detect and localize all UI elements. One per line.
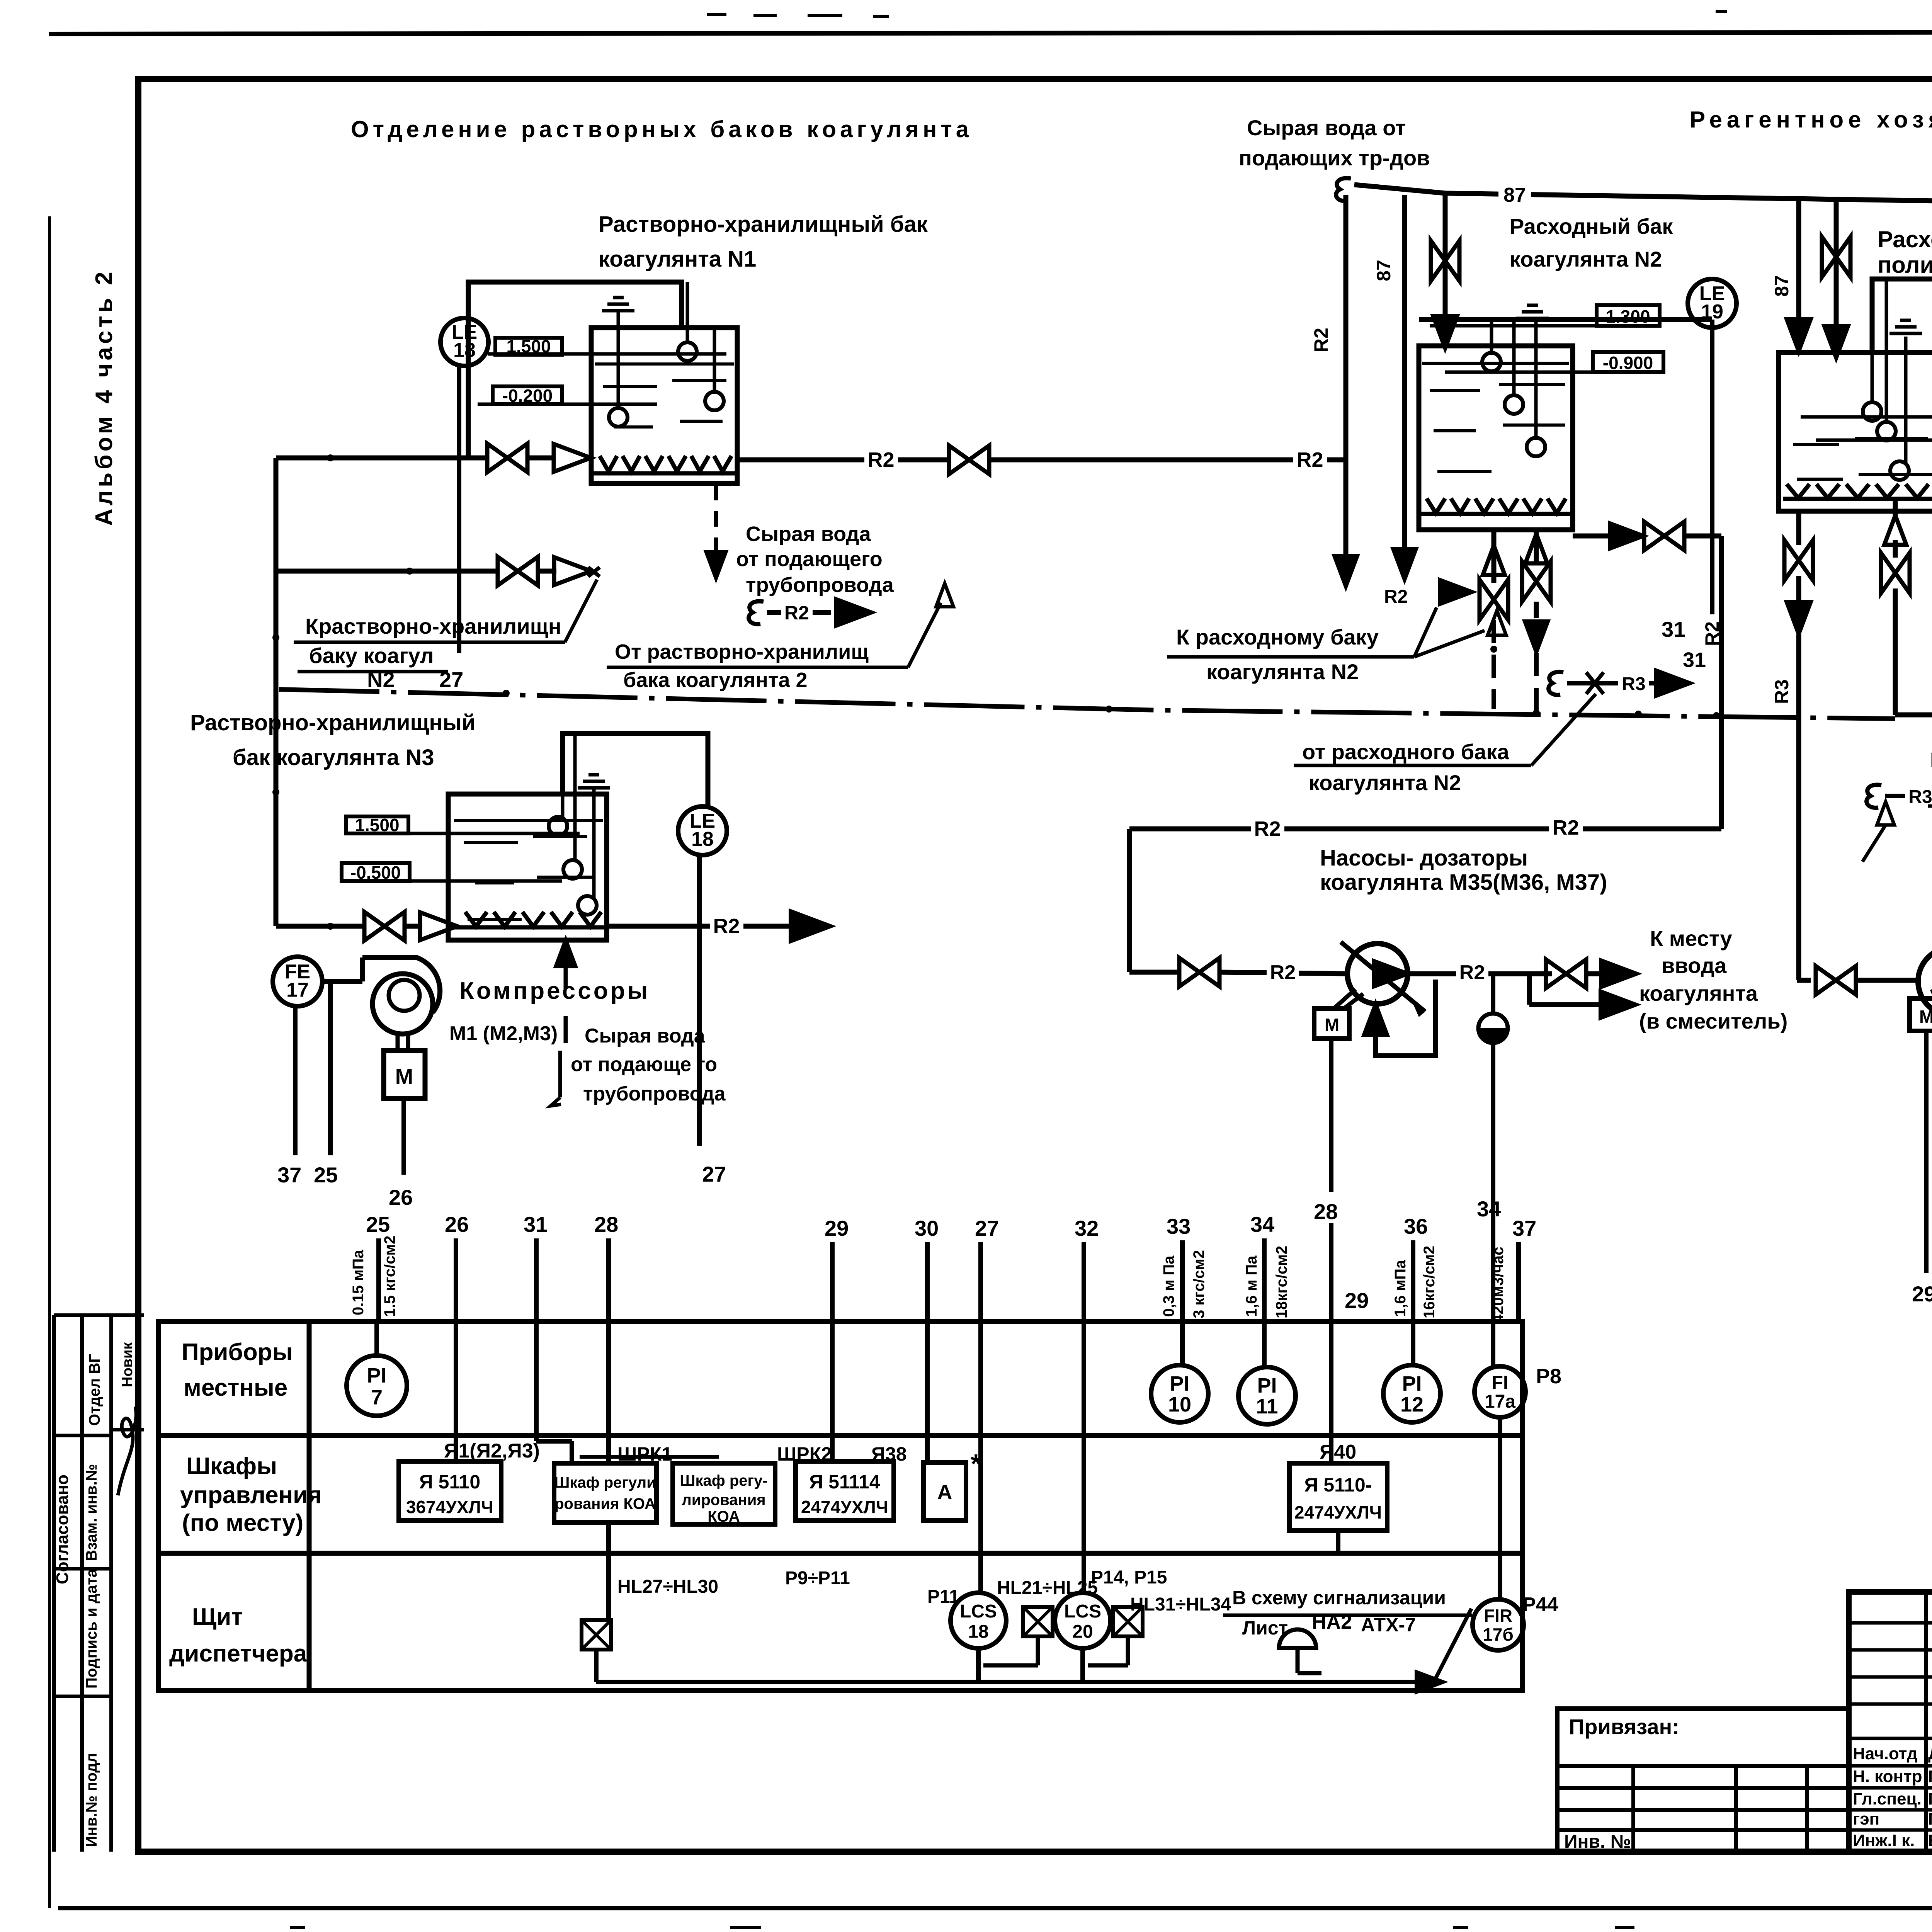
- svg-text:FIR: FIR: [1484, 1605, 1512, 1626]
- svg-text:Щит: Щит: [192, 1604, 243, 1630]
- svg-text:Сырая вода: Сырая вода: [746, 522, 871, 546]
- svg-text:37: 37: [277, 1163, 301, 1187]
- svg-text:Расходный бак: Расходный бак: [1510, 214, 1673, 238]
- svg-text:(по месту): (по месту): [182, 1510, 303, 1536]
- svg-text:3 кгс/см2: 3 кгс/см2: [1190, 1250, 1207, 1318]
- svg-text:PI: PI: [367, 1364, 386, 1387]
- svg-text:R2: R2: [1310, 328, 1332, 352]
- svg-text:0.15 мПа: 0.15 мПа: [350, 1250, 367, 1315]
- svg-text:Н. контр: Н. контр: [1853, 1767, 1922, 1786]
- svg-text:местные: местные: [184, 1374, 287, 1401]
- svg-text:Взам. инв.№: Взам. инв.№: [83, 1464, 100, 1561]
- svg-text:17б: 17б: [1483, 1624, 1514, 1645]
- svg-text:1,6 мПа: 1,6 мПа: [1392, 1260, 1409, 1317]
- svg-text:Подпись и дата: Подпись и дата: [83, 1568, 100, 1689]
- svg-text:коагулянта N2: коагулянта N2: [1510, 247, 1662, 271]
- svg-text:25: 25: [366, 1212, 390, 1236]
- svg-text:30: 30: [915, 1216, 939, 1240]
- svg-text:Я1(Я2,Я3): Я1(Я2,Я3): [444, 1440, 540, 1462]
- svg-text:лирования: лирования: [682, 1492, 765, 1509]
- svg-text:PI: PI: [1402, 1372, 1422, 1395]
- svg-text:Расходный бак: Расходный бак: [1878, 226, 1932, 252]
- svg-text:28: 28: [594, 1212, 618, 1236]
- svg-text:(в смеситель): (в смеситель): [1639, 1009, 1787, 1033]
- svg-text:В схему сигнализации: В схему сигнализации: [1232, 1587, 1446, 1609]
- svg-text:26: 26: [445, 1212, 469, 1236]
- svg-text:Растворно-хранилищный бак: Растворно-хранилищный бак: [599, 212, 928, 237]
- svg-text:32: 32: [1075, 1216, 1099, 1240]
- svg-text:R2: R2: [1270, 961, 1296, 984]
- svg-text:НА2: НА2: [1312, 1611, 1352, 1633]
- svg-text:подающих тр-дов: подающих тр-дов: [1239, 146, 1430, 170]
- svg-text:Гл.спец.: Гл.спец.: [1853, 1789, 1922, 1808]
- svg-text:25: 25: [314, 1163, 338, 1187]
- svg-text:33: 33: [1167, 1214, 1190, 1238]
- svg-text:гэп: гэп: [1853, 1810, 1879, 1828]
- svg-text:бак коагулянта N3: бак коагулянта N3: [233, 745, 434, 770]
- svg-text:Согласовано: Согласовано: [53, 1475, 72, 1584]
- svg-text:Я40: Я40: [1320, 1441, 1356, 1463]
- svg-text:18: 18: [968, 1622, 988, 1642]
- svg-text:27: 27: [975, 1216, 999, 1240]
- svg-text:Гольцман: Гольцман: [1928, 1789, 1932, 1808]
- svg-text:37: 37: [1512, 1216, 1536, 1240]
- svg-text:бака коагулянта 2: бака коагулянта 2: [623, 668, 808, 692]
- svg-text:Компрессоры: Компрессоры: [459, 978, 650, 1004]
- svg-text:87: 87: [1503, 184, 1526, 206]
- svg-text:коагулянта N1: коагулянта N1: [599, 247, 756, 272]
- svg-text:коагулянта N2: коагулянта N2: [1206, 660, 1359, 684]
- svg-text:Новик: Новик: [119, 1342, 136, 1387]
- svg-text:трубопровода: трубопровода: [583, 1083, 726, 1105]
- svg-text:М: М: [1325, 1015, 1339, 1035]
- svg-text:Я 5110-: Я 5110-: [1304, 1474, 1372, 1496]
- svg-text:18кгс/см2: 18кгс/см2: [1273, 1246, 1290, 1318]
- svg-text:19: 19: [1701, 301, 1723, 323]
- svg-text:-0.900: -0.900: [1603, 353, 1653, 373]
- svg-text:диспетчера: диспетчера: [169, 1640, 307, 1667]
- svg-text:Сырая вода от: Сырая вода от: [1247, 116, 1406, 140]
- svg-text:R2: R2: [1254, 817, 1281, 840]
- svg-text:R3: R3: [1622, 674, 1645, 694]
- svg-text:20: 20: [1072, 1622, 1093, 1642]
- svg-text:К расходному баку: К расходному баку: [1930, 748, 1932, 772]
- svg-text:R2: R2: [713, 915, 740, 938]
- svg-text:PI: PI: [1170, 1372, 1189, 1395]
- svg-text:Я 51114: Я 51114: [809, 1471, 880, 1493]
- svg-text:R2: R2: [1701, 621, 1723, 646]
- svg-text:2474УХЛЧ: 2474УХЛЧ: [1294, 1502, 1382, 1522]
- svg-text:17а: 17а: [1485, 1391, 1515, 1412]
- svg-text:12: 12: [1400, 1393, 1423, 1416]
- svg-text:1.500: 1.500: [355, 815, 399, 835]
- svg-text:29: 29: [1912, 1282, 1932, 1306]
- svg-text:R3: R3: [1771, 679, 1793, 704]
- svg-text:34: 34: [1477, 1197, 1501, 1221]
- svg-text:R2: R2: [1552, 816, 1579, 839]
- svg-text:1.300: 1.300: [1605, 306, 1650, 327]
- svg-text:Я 5110: Я 5110: [419, 1471, 480, 1493]
- svg-text:Привязан:: Привязан:: [1569, 1714, 1679, 1739]
- svg-text:К месту: К месту: [1650, 926, 1732, 951]
- svg-text:*: *: [971, 1449, 981, 1479]
- svg-text:R2: R2: [867, 448, 894, 471]
- svg-text:7: 7: [371, 1386, 383, 1409]
- svg-text:10: 10: [1168, 1393, 1191, 1416]
- svg-text:Р8: Р8: [1536, 1365, 1561, 1388]
- svg-text:М: М: [395, 1064, 413, 1088]
- svg-text:18: 18: [453, 339, 476, 361]
- svg-text:R3: R3: [1908, 787, 1932, 807]
- svg-text:коагулянта М35(М36, М37): коагулянта М35(М36, М37): [1320, 870, 1607, 895]
- svg-text:Елизарова: Елизарова: [1928, 1831, 1932, 1850]
- svg-text:16кгс/см2: 16кгс/см2: [1421, 1246, 1438, 1318]
- svg-text:Гусева: Гусева: [1928, 1767, 1932, 1786]
- svg-text:Насосы- дозаторы: Насосы- дозаторы: [1320, 845, 1528, 871]
- svg-text:FI: FI: [1492, 1372, 1509, 1393]
- svg-text:Инв. №: Инв. №: [1564, 1832, 1631, 1852]
- svg-text:АТХ-7: АТХ-7: [1361, 1614, 1416, 1636]
- svg-text:М: М: [1919, 1007, 1932, 1027]
- svg-text:Гусева: Гусева: [1928, 1810, 1932, 1828]
- svg-text:Шкафы: Шкафы: [186, 1453, 277, 1480]
- svg-text:17: 17: [286, 979, 309, 1002]
- svg-text:баку коагул: баку коагул: [309, 643, 434, 668]
- svg-text:коагулянта: коагулянта: [1639, 981, 1758, 1005]
- svg-text:87: 87: [1771, 275, 1793, 297]
- svg-text:трубопровода: трубопровода: [746, 573, 894, 597]
- svg-text:ввода: ввода: [1662, 953, 1727, 978]
- svg-text:R2: R2: [1384, 587, 1408, 607]
- svg-text:от подающего: от подающего: [736, 548, 883, 571]
- svg-text:R2: R2: [784, 602, 809, 624]
- svg-text:Р9÷Р11: Р9÷Р11: [785, 1568, 850, 1588]
- svg-text:3674УХЛЧ: 3674УХЛЧ: [406, 1497, 493, 1517]
- svg-text:М1 (М2,М3): М1 (М2,М3): [449, 1022, 558, 1045]
- svg-text:36: 36: [1404, 1214, 1428, 1238]
- svg-text:27: 27: [702, 1162, 726, 1186]
- svg-text:31: 31: [1683, 648, 1706, 672]
- svg-text:29: 29: [1345, 1288, 1369, 1313]
- svg-text:0,3 м Па: 0,3 м Па: [1160, 1255, 1177, 1317]
- svg-text:PI: PI: [1257, 1374, 1277, 1397]
- svg-text:Шкаф регу-: Шкаф регу-: [680, 1472, 767, 1489]
- svg-text:29: 29: [825, 1216, 849, 1240]
- svg-text:Приборы: Приборы: [182, 1339, 293, 1366]
- svg-text:Нач.отд: Нач.отд: [1853, 1744, 1918, 1763]
- svg-text:18: 18: [691, 828, 714, 850]
- svg-text:420м3/час: 420м3/час: [1490, 1247, 1507, 1323]
- svg-text:Р14, Р15: Р14, Р15: [1091, 1567, 1167, 1588]
- svg-text:31: 31: [524, 1212, 548, 1236]
- svg-text:управления: управления: [180, 1482, 321, 1509]
- svg-text:1,6 м Па: 1,6 м Па: [1243, 1255, 1260, 1317]
- svg-text:R2: R2: [1296, 448, 1323, 471]
- svg-text:28: 28: [1314, 1199, 1338, 1224]
- svg-text:1.5 кгс/см2: 1.5 кгс/см2: [381, 1236, 398, 1317]
- svg-text:рования КОА: рования КОА: [554, 1495, 656, 1512]
- svg-text:Шкаф регули: Шкаф регули: [554, 1474, 656, 1491]
- svg-text:коагулянта N2: коагулянта N2: [1309, 770, 1461, 795]
- svg-text:31: 31: [1662, 617, 1685, 641]
- svg-text:HL31÷HL34: HL31÷HL34: [1130, 1594, 1231, 1615]
- svg-text:34: 34: [1250, 1212, 1274, 1236]
- svg-text:11: 11: [1256, 1395, 1278, 1418]
- svg-text:87: 87: [1373, 260, 1395, 281]
- svg-text:Р11: Р11: [927, 1587, 959, 1607]
- svg-text:А: А: [937, 1481, 952, 1504]
- svg-text:HL21÷HL25: HL21÷HL25: [997, 1578, 1098, 1598]
- svg-text:Инв.№ подл: Инв.№ подл: [83, 1753, 100, 1847]
- svg-text:Сырая вода: Сырая вода: [585, 1025, 706, 1047]
- svg-text:LCS: LCS: [1064, 1601, 1101, 1622]
- svg-text:Реагентное хозяйство: Реагентное хозяйство: [1690, 107, 1932, 133]
- svg-text:2474УХЛЧ: 2474УХЛЧ: [801, 1497, 888, 1517]
- svg-text:Данилов: Данилов: [1928, 1744, 1932, 1763]
- svg-text:Инж.I к.: Инж.I к.: [1853, 1831, 1915, 1850]
- svg-text:LCS: LCS: [960, 1601, 997, 1622]
- svg-text:КОА: КОА: [707, 1508, 740, 1525]
- svg-text:полиакриламида N1: полиакриламида N1: [1878, 252, 1932, 278]
- svg-text:26: 26: [389, 1185, 413, 1209]
- svg-text:Отдел ВГ: Отдел ВГ: [86, 1354, 103, 1426]
- svg-text:от расходного бака: от расходного бака: [1302, 740, 1509, 764]
- svg-text:R2: R2: [1459, 961, 1485, 984]
- svg-text:от подающе го: от подающе го: [571, 1053, 717, 1076]
- svg-text:Отделение растворных баков: Отделение растворных баков коагулянта: [351, 116, 973, 142]
- svg-text:От растворно-хранилищ: От растворно-хранилищ: [615, 640, 869, 663]
- svg-text:Р44: Р44: [1522, 1594, 1558, 1616]
- svg-text:Альбом 4 часть 2: Альбом 4 часть 2: [91, 269, 117, 526]
- svg-text:Растворно-хранилищный: Растворно-хранилищный: [190, 710, 476, 735]
- svg-text:-0.500: -0.500: [350, 862, 401, 883]
- svg-text:HL27÷HL30: HL27÷HL30: [617, 1577, 718, 1597]
- svg-text:Крастворно-хранилищн: Крастворно-хранилищн: [305, 614, 561, 638]
- svg-text:К расходному баку: К расходному баку: [1176, 625, 1379, 649]
